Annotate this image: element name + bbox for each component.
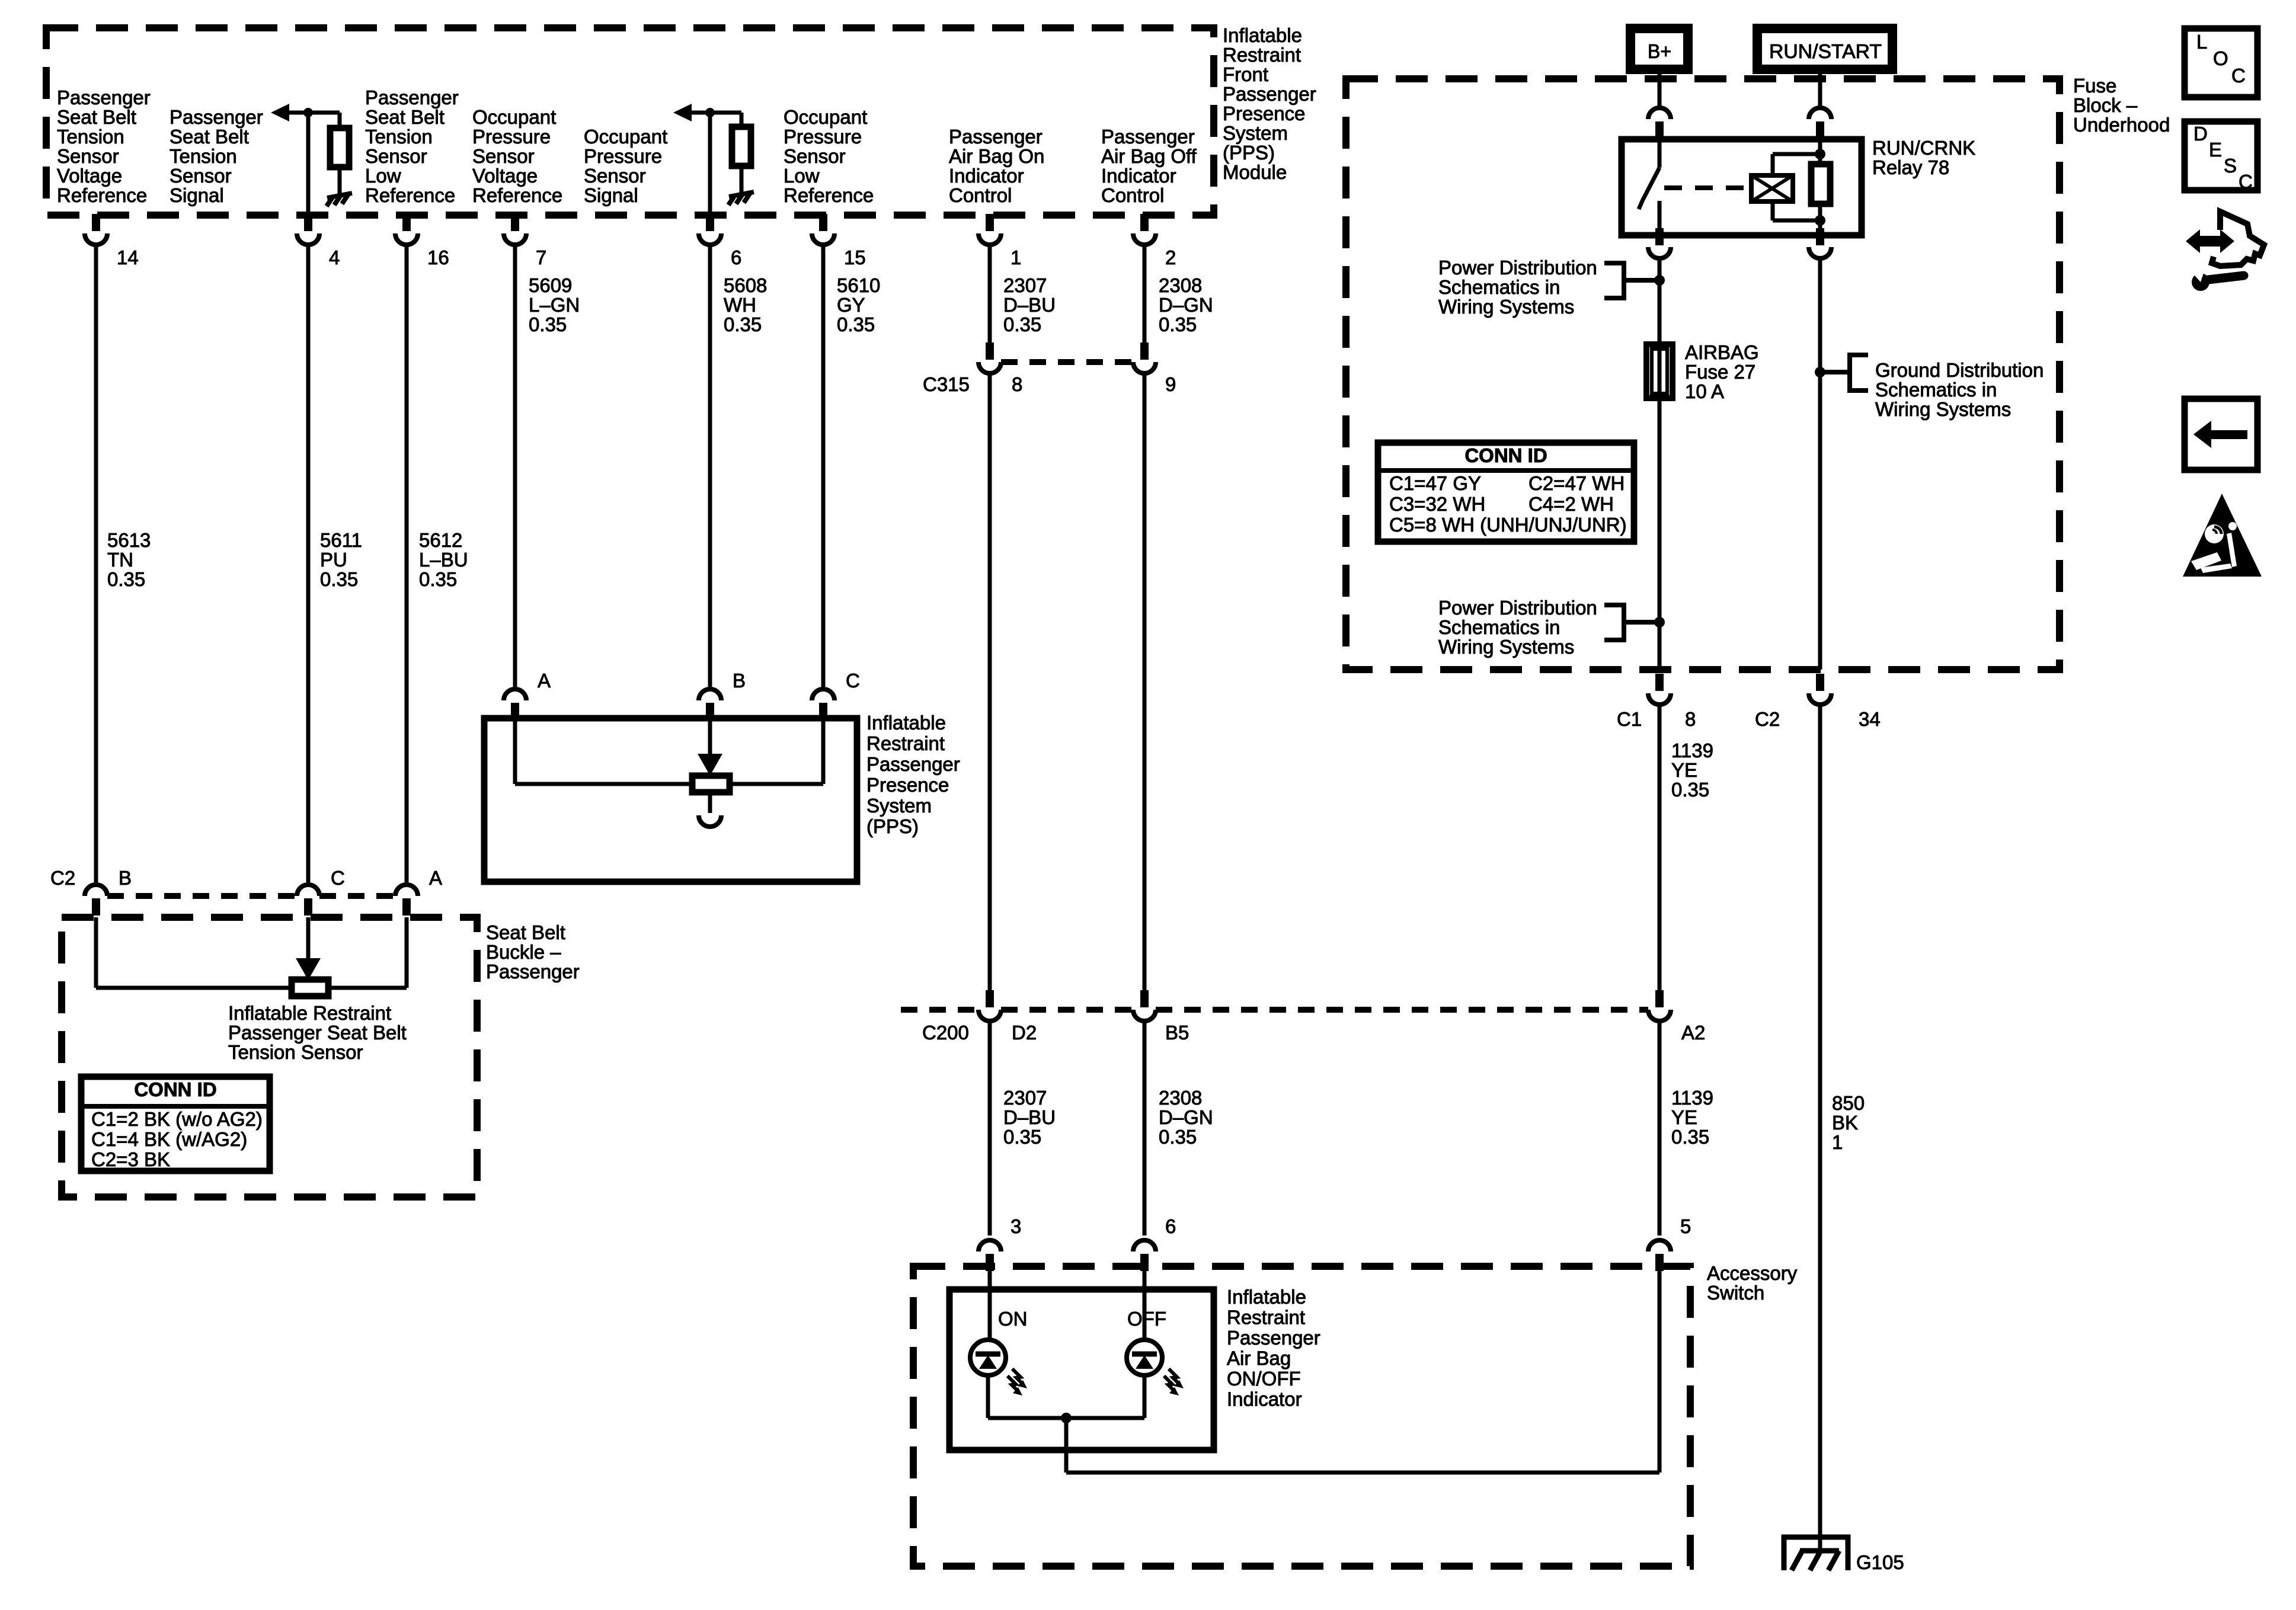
wire: RUN/START feed into relay <box>1818 69 1822 107</box>
pin A: buckle connector terminal <box>395 885 418 896</box>
wire: 2308 D-GN from module pin 2 to connector C315 <box>1143 246 1147 343</box>
svg-text:C4=2 WH: C4=2 WH <box>1528 493 1614 515</box>
pin: relay terminal from B+ (connector cap) <box>1648 108 1671 119</box>
arrows: OFF LED emission arrows <box>1169 1369 1178 1382</box>
wire: relay coil circuit vertical lower <box>1818 204 1822 235</box>
svg-text:C2=3 BK: C2=3 BK <box>91 1148 170 1170</box>
svg-text:Occupant: Occupant <box>584 126 667 148</box>
svg-text:850: 850 <box>1832 1092 1865 1114</box>
svg-text:Accessory: Accessory <box>1707 1262 1798 1284</box>
svg-text:Seat Belt: Seat Belt <box>486 921 565 943</box>
svg-text:0.35: 0.35 <box>1159 1126 1197 1148</box>
resistor: PPS sense resistor <box>692 776 730 792</box>
svg-text:C1=2 BK (w/o AG2): C1=2 BK (w/o AG2) <box>91 1108 263 1130</box>
wire: 850 BK from C2 to ground G105 <box>1818 706 1822 1551</box>
icon: LOC box <box>2185 28 2257 97</box>
svg-text:L–BU: L–BU <box>419 549 468 571</box>
svg-text:Sensor: Sensor <box>170 165 232 187</box>
lamp: OFF indicator LED <box>1127 1340 1162 1375</box>
svg-text:E: E <box>2209 139 2222 161</box>
pin 15: module connector terminal <box>819 214 827 231</box>
wire: buckle internal pin C leg with arrow <box>306 917 311 961</box>
svg-text:RUN/CRNK: RUN/CRNK <box>1872 137 1975 159</box>
svg-text:Seat Belt: Seat Belt <box>170 126 249 148</box>
svg-text:Inflatable: Inflatable <box>1227 1286 1306 1308</box>
pin: relay output terminal (B+ side) <box>1655 228 1664 245</box>
svg-text:C1=47 GY: C1=47 GY <box>1389 472 1481 494</box>
svg-text:System: System <box>1223 122 1288 144</box>
svg-text:C: C <box>331 867 345 889</box>
svg-text:BK: BK <box>1832 1112 1858 1134</box>
callout bracket: power distribution reference 1 <box>1604 263 1655 298</box>
svg-text:5: 5 <box>1680 1215 1691 1237</box>
svg-text:0.35: 0.35 <box>837 313 875 335</box>
svg-text:C200: C200 <box>922 1022 969 1044</box>
module: Inflatable Restraint Front Passenger Presence System (PPS) Module, dashed box <box>46 28 1214 215</box>
svg-text:D–GN: D–GN <box>1159 294 1213 316</box>
svg-text:B+: B+ <box>1648 40 1671 62</box>
svg-text:C1: C1 <box>1617 708 1642 730</box>
icon: DESC box <box>2185 121 2257 190</box>
svg-text:Signal: Signal <box>170 184 224 206</box>
wire: PPS internal below resistor <box>708 792 712 813</box>
svg-text:ON: ON <box>998 1308 1028 1330</box>
arrow: buckle wiper arrow pointing down into tension sensor resistor <box>296 958 321 980</box>
svg-text:Passenger: Passenger <box>57 87 151 108</box>
svg-text:Switch: Switch <box>1707 1282 1764 1304</box>
svg-text:0.35: 0.35 <box>1671 779 1709 801</box>
svg-text:D2: D2 <box>1012 1022 1037 1044</box>
svg-text:2: 2 <box>1165 247 1176 268</box>
svg-text:A: A <box>429 867 442 889</box>
svg-text:5610: 5610 <box>837 274 880 296</box>
svg-text:8: 8 <box>1012 373 1022 395</box>
wire: module internal, pin 6 net horizontal <box>692 111 741 115</box>
connector C200: terminal A2 on wire 1139 <box>1655 990 1664 1007</box>
svg-text:Reference: Reference <box>784 184 874 206</box>
pin: relay terminal from RUN/START (connector cap) <box>1809 108 1831 119</box>
svg-text:Control: Control <box>1101 184 1164 206</box>
resistor: relay coil suppression resistor <box>1811 164 1830 204</box>
svg-text:6: 6 <box>1165 1215 1176 1237</box>
wire: 2308 D-GN from C315 to connector C200 <box>1143 375 1147 991</box>
svg-text:Tension: Tension <box>57 126 124 148</box>
node: coil/resistor upper junction <box>1815 149 1825 159</box>
node: power distribution tap junction 1 <box>1654 275 1665 286</box>
wire: relay actuator dashed link <box>1664 185 1750 190</box>
svg-text:Control: Control <box>949 184 1012 206</box>
svg-text:9: 9 <box>1165 373 1176 395</box>
svg-text:Signal: Signal <box>584 184 638 206</box>
connector C315: terminal 9 on wire 2308 <box>1140 343 1149 360</box>
svg-text:L: L <box>2196 31 2207 53</box>
coil: relay coil (box with X) <box>1751 175 1793 201</box>
wire: relay switched output <box>1658 201 1662 235</box>
svg-text:Pressure: Pressure <box>584 145 662 167</box>
svg-text:Indicator: Indicator <box>1101 165 1176 187</box>
wire: buckle internal pin A leg <box>405 917 409 988</box>
pin C: buckle connector terminal <box>297 885 319 896</box>
connector C315: terminal 8 on wire 2307 <box>986 343 994 360</box>
svg-text:16: 16 <box>427 247 449 268</box>
connector C2: mating dashed line B-C <box>107 893 297 899</box>
svg-text:3: 3 <box>1011 1215 1021 1237</box>
svg-text:Low: Low <box>784 165 820 187</box>
connector C2: terminal 34 below fuse block <box>1816 674 1824 691</box>
table: fuse block CONN ID box <box>1378 443 1634 542</box>
wire: PPS internal pin B leg with wiper arrow <box>708 718 712 755</box>
node: junction of pin 4 wire and internal resistor branch <box>303 108 313 117</box>
wire: indicator common horizontal <box>988 1416 1144 1420</box>
svg-text:WH: WH <box>724 294 756 316</box>
svg-text:Power Distribution: Power Distribution <box>1438 257 1597 279</box>
svg-text:YE: YE <box>1671 759 1697 781</box>
wire: pin 6 vertical inside module <box>708 113 712 214</box>
component: Inflatable Restraint Passenger Presence System (PPS) box <box>484 718 857 882</box>
svg-text:C: C <box>2239 171 2253 193</box>
svg-text:OFF: OFF <box>1127 1308 1166 1330</box>
svg-text:(PPS): (PPS) <box>866 815 919 837</box>
callout bracket: power distribution reference 2 <box>1604 605 1655 640</box>
svg-text:Air Bag On: Air Bag On <box>949 145 1044 167</box>
svg-text:D: D <box>2193 123 2208 145</box>
svg-text:Buckle –: Buckle – <box>486 941 561 963</box>
svg-text:0.35: 0.35 <box>1003 1126 1041 1148</box>
svg-text:Block –: Block – <box>2073 94 2138 116</box>
svg-text:C: C <box>846 670 860 692</box>
connector C2: mating dashed line C-A <box>319 893 395 899</box>
lamp: ON indicator LED <box>970 1340 1006 1375</box>
wire: pin 3 into indicator to ON lamp <box>988 1269 992 1340</box>
svg-text:A: A <box>538 670 551 692</box>
terminal: PPS internal open terminal cup <box>699 815 721 827</box>
arrow: PPS wiper arrow pointing down into resistor <box>698 754 722 776</box>
svg-text:14: 14 <box>117 247 139 268</box>
wire: pin 4 vertical inside module <box>306 113 311 214</box>
svg-text:D–BU: D–BU <box>1003 1106 1056 1128</box>
svg-text:Underhood: Underhood <box>2073 114 2170 136</box>
fuse: AIRBAG Fuse 27 10A <box>1658 344 1662 398</box>
svg-text:C2: C2 <box>1755 708 1780 730</box>
svg-text:TN: TN <box>107 549 133 571</box>
svg-text:Air Bag Off: Air Bag Off <box>1101 145 1197 167</box>
svg-text:Presence: Presence <box>866 774 949 796</box>
wire: coil upper connection loop <box>1771 154 1775 175</box>
pin 3: accessory switch connector terminal <box>978 1240 1001 1251</box>
svg-text:5608: 5608 <box>724 274 767 296</box>
pin 6: accessory switch connector terminal <box>1133 1240 1156 1251</box>
svg-text:5612: 5612 <box>419 529 462 551</box>
svg-text:Fuse: Fuse <box>2073 75 2116 97</box>
icon: back arrow box <box>2185 399 2257 470</box>
wire: 2307 D-BU from C315 to connector C200 <box>988 375 992 991</box>
svg-text:Tension: Tension <box>365 126 433 148</box>
node: junction of pin 6 wire and internal resistor branch <box>705 108 715 117</box>
svg-text:Reference: Reference <box>472 184 562 206</box>
pin 6: module connector terminal <box>706 214 714 231</box>
svg-text:Restraint: Restraint <box>1223 44 1301 66</box>
svg-text:Restraint: Restraint <box>866 732 945 754</box>
svg-text:CONN ID: CONN ID <box>134 1078 216 1100</box>
svg-text:2308: 2308 <box>1159 1087 1202 1109</box>
svg-text:Power Distribution: Power Distribution <box>1438 597 1597 619</box>
svg-text:Front: Front <box>1223 63 1268 85</box>
wire: 5611 PU from module pin 4 to buckle pin C <box>306 246 311 882</box>
svg-text:Seat Belt: Seat Belt <box>365 106 445 128</box>
wire: relay output to AIRBAG fuse <box>1658 260 1662 344</box>
svg-text:1: 1 <box>1832 1131 1843 1153</box>
power feed: B+ box <box>1630 28 1688 69</box>
svg-text:Presence: Presence <box>1223 103 1305 124</box>
svg-text:System: System <box>866 795 932 817</box>
wire: 1139 YE from C1 to C200 <box>1658 706 1662 991</box>
svg-text:Reference: Reference <box>57 184 147 206</box>
svg-text:S: S <box>2224 155 2237 177</box>
wire: indicator common return to pin 5 <box>1064 1418 1069 1473</box>
svg-text:Occupant: Occupant <box>472 106 556 128</box>
connector C200: mating dashed line B5-A2 <box>1156 1007 1648 1013</box>
relay: RUN/CRNK Relay 78 box <box>1622 139 1862 235</box>
svg-text:0.35: 0.35 <box>107 568 145 590</box>
pin A: PPS sensor connector terminal <box>504 689 526 700</box>
svg-text:Ground Distribution: Ground Distribution <box>1875 359 2044 381</box>
svg-text:Sensor: Sensor <box>784 145 846 167</box>
svg-text:Schematics in: Schematics in <box>1438 276 1560 298</box>
wire: coil lower connection loop <box>1771 201 1775 220</box>
connector C315: mating dashed line <box>1001 359 1133 365</box>
svg-text:Wiring Systems: Wiring Systems <box>1875 398 2011 420</box>
connector C200: terminal D2 on wire 2307 <box>986 990 994 1007</box>
svg-text:34: 34 <box>1859 708 1881 730</box>
callout bracket: ground distribution reference <box>1824 355 1868 391</box>
node: indicator common junction <box>1061 1413 1072 1423</box>
svg-text:1139: 1139 <box>1671 740 1713 761</box>
svg-text:7: 7 <box>536 247 546 268</box>
pin 14: module connector terminal <box>92 214 100 231</box>
svg-text:0.35: 0.35 <box>419 568 457 590</box>
wire: PPS internal pin A leg <box>513 718 517 784</box>
svg-text:D–GN: D–GN <box>1159 1106 1213 1128</box>
svg-text:0.35: 0.35 <box>1159 313 1197 335</box>
wire: resistor to internal ground <box>338 167 342 194</box>
svg-text:RUN/START: RUN/START <box>1769 40 1882 62</box>
svg-text:0.35: 0.35 <box>320 568 358 590</box>
node: ground distribution tap junction <box>1815 367 1825 377</box>
table: buckle CONN ID box <box>81 1077 270 1171</box>
svg-text:G105: G105 <box>1856 1551 1904 1573</box>
svg-text:YE: YE <box>1671 1106 1697 1128</box>
svg-text:B: B <box>733 670 746 692</box>
wire: ON lamp to common <box>986 1375 990 1418</box>
pin 7: module connector terminal <box>511 214 519 231</box>
svg-text:2308: 2308 <box>1159 274 1202 296</box>
svg-text:0.35: 0.35 <box>724 313 762 335</box>
svg-text:Air Bag: Air Bag <box>1227 1347 1291 1369</box>
component: Fuse Block - Underhood dashed box <box>1346 79 2060 670</box>
wire: 5609 L-GN from module pin 7 to PPS sensor pin A <box>513 246 517 687</box>
table: fuse block CONN ID header rule <box>1378 468 1634 473</box>
svg-text:Wiring Systems: Wiring Systems <box>1438 296 1574 318</box>
wire: 5610 GY from module pin 15 to PPS sensor pin C <box>821 246 826 687</box>
wire: pin 6 into indicator to OFF lamp <box>1143 1269 1147 1340</box>
svg-text:15: 15 <box>844 247 866 268</box>
svg-text:5611: 5611 <box>320 529 362 551</box>
svg-text:Pressure: Pressure <box>472 126 551 148</box>
pin B: buckle connector terminal <box>85 885 107 896</box>
svg-text:C2: C2 <box>50 867 75 889</box>
svg-text:Wiring Systems: Wiring Systems <box>1438 636 1574 658</box>
ground: internal chassis ground (pin 6 branch) <box>728 192 754 205</box>
svg-text:Reference: Reference <box>365 184 455 206</box>
svg-text:0.35: 0.35 <box>1671 1126 1709 1148</box>
svg-text:2307: 2307 <box>1003 274 1047 296</box>
wire: relay switch feed <box>1658 139 1662 168</box>
wire: PPS internal pin C leg <box>821 718 826 784</box>
svg-text:ON/OFF: ON/OFF <box>1227 1368 1301 1390</box>
arrow: internal signal arrow pointing left (pin 4) <box>271 104 289 121</box>
svg-text:C315: C315 <box>923 373 970 395</box>
svg-text:Inflatable: Inflatable <box>1223 24 1302 46</box>
pin C: PPS sensor connector terminal <box>812 689 834 700</box>
svg-text:Passenger: Passenger <box>1223 83 1316 105</box>
arrow: internal signal arrow pointing left (pin 6) <box>673 104 692 121</box>
wire: module internal, pin 4 net horizontal <box>289 111 340 115</box>
svg-text:Indicator: Indicator <box>1227 1388 1302 1410</box>
svg-text:Passenger: Passenger <box>170 106 263 128</box>
svg-text:Restraint: Restraint <box>1227 1307 1305 1329</box>
icon: diagnostic arrow and wrench <box>2186 212 2264 291</box>
svg-text:5609: 5609 <box>529 274 572 296</box>
wire: 1139 YE from C200 to accessory switch pin 5 <box>1658 1022 1662 1235</box>
svg-text:10 A: 10 A <box>1685 380 1724 402</box>
svg-text:B5: B5 <box>1165 1022 1189 1044</box>
svg-text:Sensor: Sensor <box>584 165 646 187</box>
pin 4: module connector terminal <box>304 214 312 231</box>
wire: OFF lamp to common <box>1143 1375 1147 1418</box>
svg-text:Passenger: Passenger <box>1101 126 1195 148</box>
svg-text:Voltage: Voltage <box>57 165 122 187</box>
wire: 5608 WH from module pin 6 to PPS sensor pin B <box>708 246 712 687</box>
node: power distribution tap junction 2 <box>1654 617 1665 628</box>
node: coil/resistor lower junction <box>1815 215 1825 226</box>
wire: 5612 L-BU from module pin 16 to buckle pin A <box>405 246 409 882</box>
svg-text:Passenger: Passenger <box>365 87 459 108</box>
svg-text:L–GN: L–GN <box>529 294 580 316</box>
svg-text:Voltage: Voltage <box>472 165 538 187</box>
component: Inflatable Restraint Passenger Air Bag ON/OFF Indicator box <box>949 1289 1214 1450</box>
svg-text:Passenger: Passenger <box>866 753 960 775</box>
svg-text:Inflatable: Inflatable <box>866 712 946 734</box>
svg-text:0.35: 0.35 <box>1003 313 1041 335</box>
svg-text:C1=4 BK (w/AG2): C1=4 BK (w/AG2) <box>91 1128 247 1150</box>
wire: internal branch down to resistor R-int2 <box>740 113 744 127</box>
svg-text:8: 8 <box>1685 708 1696 730</box>
arrows: ON LED emission arrows <box>1012 1369 1021 1382</box>
wire: fuse output down to connector C1 <box>1658 398 1662 670</box>
connector C200: mating dashed line D2-B5 <box>1001 1007 1133 1013</box>
pin 16: module connector terminal <box>402 214 411 231</box>
svg-text:PU: PU <box>320 549 347 571</box>
svg-text:Module: Module <box>1223 161 1287 183</box>
svg-text:Passenger: Passenger <box>486 961 580 982</box>
svg-text:Schematics in: Schematics in <box>1875 379 1997 401</box>
pin 1: module connector terminal <box>986 214 994 231</box>
connector C200: terminal B5 on wire 2308 <box>1140 990 1149 1007</box>
svg-text:Schematics in: Schematics in <box>1438 616 1560 638</box>
svg-text:Occupant: Occupant <box>784 106 867 128</box>
svg-text:(PPS): (PPS) <box>1223 142 1275 164</box>
svg-text:Passenger Seat Belt: Passenger Seat Belt <box>228 1022 407 1044</box>
wire: 2307 D-BU from C200 to accessory switch pin 3 <box>988 1022 992 1235</box>
svg-text:C: C <box>2231 65 2246 87</box>
svg-text:O: O <box>2213 47 2228 69</box>
svg-text:5613: 5613 <box>107 529 151 551</box>
svg-text:Seat Belt: Seat Belt <box>57 106 136 128</box>
pin 2: module connector terminal <box>1140 214 1149 231</box>
svg-text:Sensor: Sensor <box>57 145 119 167</box>
svg-text:1139: 1139 <box>1671 1087 1713 1109</box>
svg-text:Relay 78: Relay 78 <box>1872 156 1949 178</box>
svg-text:Inflatable Restraint: Inflatable Restraint <box>228 1002 391 1024</box>
svg-text:Fuse 27: Fuse 27 <box>1685 361 1755 383</box>
svg-text:4: 4 <box>329 247 340 268</box>
wire: 5613 TN from module pin 14 to buckle pin B <box>94 246 98 882</box>
wire: resistor to internal ground <box>740 166 744 193</box>
wire: relay RUN side output to ground distribution <box>1818 260 1822 670</box>
svg-text:Sensor: Sensor <box>365 145 427 167</box>
svg-text:CONN ID: CONN ID <box>1464 444 1547 466</box>
svg-text:2307: 2307 <box>1003 1087 1047 1109</box>
svg-text:A2: A2 <box>1681 1022 1705 1044</box>
wire: B+ feed into relay <box>1658 69 1662 107</box>
wire: relay coil circuit vertical upper <box>1818 139 1822 164</box>
svg-text:0.35: 0.35 <box>529 313 567 335</box>
svg-text:1: 1 <box>1011 247 1021 268</box>
wire: 2307 D-BU from module pin 1 to connector C315 <box>988 246 992 343</box>
svg-text:Passenger: Passenger <box>1227 1327 1320 1349</box>
component: Seat Belt Buckle - Passenger dashed box <box>62 917 477 1197</box>
icon: airbag warning triangle <box>2183 494 2262 577</box>
svg-text:6: 6 <box>731 247 741 268</box>
connector C1: terminal 8 below fuse block <box>1655 674 1664 691</box>
svg-text:Tension Sensor: Tension Sensor <box>228 1041 363 1063</box>
pin: relay output terminal (RUN side) <box>1816 228 1824 245</box>
ground: G105 ground symbol <box>1784 1537 1848 1570</box>
svg-text:AIRBAG: AIRBAG <box>1685 341 1759 363</box>
svg-text:C2=47 WH: C2=47 WH <box>1528 472 1625 494</box>
resistor: internal pull resistor at pin 4 <box>330 128 349 167</box>
svg-text:Indicator: Indicator <box>949 165 1024 187</box>
resistor: Inflatable Restraint Passenger Seat Belt Tension Sensor element <box>292 980 328 996</box>
connector C200: mating dashed line left stub <box>901 1007 978 1013</box>
wire: 2308 D-GN from C200 to accessory switch pin 6 <box>1143 1022 1147 1235</box>
wire: buckle internal pin B leg <box>94 917 98 988</box>
resistor: internal pull resistor at pin 6 <box>732 127 751 166</box>
wire: internal branch down to resistor R-int1 <box>338 113 342 128</box>
ground: internal chassis ground (pin 4 branch) <box>327 193 352 206</box>
component: Accessory Switch dashed box <box>913 1266 1690 1566</box>
table: buckle CONN ID header rule <box>81 1104 270 1109</box>
svg-text:Low: Low <box>365 165 401 187</box>
pin 5: accessory switch connector terminal <box>1648 1240 1671 1251</box>
svg-text:Passenger: Passenger <box>949 126 1043 148</box>
svg-text:Pressure: Pressure <box>784 126 862 148</box>
switch: relay contact blade <box>1639 168 1659 209</box>
svg-text:D–BU: D–BU <box>1003 294 1056 316</box>
svg-text:Tension: Tension <box>170 145 237 167</box>
power feed: RUN/START box <box>1757 28 1892 69</box>
svg-text:GY: GY <box>837 294 865 316</box>
